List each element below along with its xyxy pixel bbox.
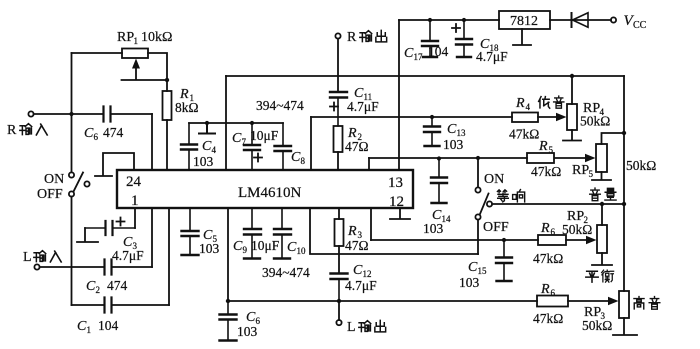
svg-text:47kΩ: 47kΩ — [533, 311, 563, 326]
label L output — [347, 320, 386, 335]
resistor R6 balance — [538, 235, 566, 245]
svg-text:C: C — [202, 139, 212, 154]
label RP1 10kOhm — [117, 30, 172, 46]
label R3 47ohm — [345, 224, 369, 253]
label RP3 50k — [582, 305, 612, 333]
svg-text:47Ω: 47Ω — [345, 238, 369, 253]
label C6 103 bottom — [237, 310, 261, 339]
svg-text:7: 7 — [242, 137, 247, 147]
switch S1 pole — [84, 181, 89, 186]
potentiometer RP1 — [122, 49, 148, 59]
svg-text:R: R — [347, 30, 357, 45]
svg-text:C: C — [86, 279, 96, 294]
label R input — [7, 123, 47, 138]
resistor R3 — [335, 219, 344, 246]
switch S1 contact ON — [69, 172, 74, 177]
svg-text:L: L — [23, 250, 32, 265]
wire R3 top — [338, 208, 340, 219]
svg-text:10: 10 — [297, 246, 307, 256]
wire IC to bottom rail — [227, 208, 229, 301]
op-amp U1 LM4610N body — [117, 170, 413, 208]
potentiometer RP4 — [567, 104, 577, 130]
label R5 47k — [531, 139, 561, 179]
svg-text:LM4610N: LM4610N — [238, 185, 302, 201]
svg-text:10μF: 10μF — [251, 238, 280, 253]
terminal L output — [336, 320, 341, 325]
svg-text:L: L — [347, 320, 356, 335]
label 394-474 upper — [256, 98, 304, 113]
svg-text:2: 2 — [96, 285, 101, 295]
svg-text:47kΩ: 47kΩ — [533, 251, 563, 266]
label C3 4.7uF — [112, 235, 144, 263]
wire balance line — [371, 239, 591, 241]
label R6 balance — [533, 221, 563, 266]
svg-text:103: 103 — [199, 241, 220, 256]
svg-text:R: R — [540, 221, 550, 236]
wire node A horizontal — [189, 122, 283, 124]
svg-text:17: 17 — [414, 52, 424, 62]
switch S2 pole — [487, 201, 492, 206]
wire RP5 top link — [602, 133, 625, 144]
switch S2 contact OFF — [475, 214, 480, 219]
wire RP1 right lead — [148, 53, 167, 78]
svg-text:8kΩ: 8kΩ — [175, 100, 199, 115]
wiper RP1 wire — [122, 66, 168, 80]
wire OFF down to C1 — [71, 197, 73, 305]
wire balance pin riser — [370, 208, 372, 240]
wire loudness low rail — [310, 208, 478, 254]
svg-text:9: 9 — [243, 245, 248, 255]
label C9 — [233, 239, 248, 255]
capacitor C12 electrolytic — [331, 274, 348, 302]
ground RP4 — [563, 130, 581, 141]
svg-text:ON: ON — [44, 172, 64, 187]
wire L input to C2 — [40, 266, 104, 268]
arrow into RP4 — [556, 113, 567, 122]
svg-text:OFF: OFF — [483, 220, 509, 235]
wire bottom rail — [228, 300, 613, 302]
resistor R5 — [527, 153, 554, 163]
svg-text:103: 103 — [423, 221, 444, 236]
terminal R output — [335, 33, 340, 38]
svg-text:104: 104 — [98, 318, 119, 333]
wire C2 to IC pin — [151, 208, 153, 267]
svg-text:7812: 7812 — [510, 14, 538, 29]
node RP5 top rail — [622, 131, 626, 135]
arrow into RP3 — [608, 297, 619, 306]
switch S2 arm — [480, 194, 489, 215]
polarity C18 plus — [452, 24, 460, 32]
label C14 103 — [423, 208, 451, 236]
label C15 103 — [459, 260, 487, 290]
wire R1 bottom lead — [166, 120, 168, 170]
ground RP2 — [592, 253, 612, 265]
terminal L input — [34, 264, 39, 269]
label R output — [347, 30, 387, 45]
arrow into RP2 — [586, 236, 597, 245]
wire junction to switch — [71, 116, 73, 172]
label C8 — [291, 150, 306, 166]
node RP1/R-input junction — [69, 112, 73, 116]
svg-text:C: C — [291, 150, 301, 165]
node loudness switch top — [476, 156, 480, 160]
svg-text:4: 4 — [526, 102, 531, 112]
label C10 — [287, 240, 306, 256]
resistor R4 — [512, 113, 538, 123]
node C17 top — [428, 18, 432, 22]
capacitor C10 — [274, 208, 291, 259]
label LM4610N — [238, 185, 302, 201]
capacitor C9 — [244, 208, 261, 259]
svg-text:50kΩ: 50kΩ — [580, 114, 610, 129]
svg-text:394~474: 394~474 — [256, 98, 304, 113]
svg-text:R: R — [515, 96, 525, 111]
svg-text:10kΩ: 10kΩ — [141, 30, 172, 45]
wire riser to top rail — [225, 76, 227, 170]
capacitor C4 — [181, 123, 197, 170]
svg-text:C: C — [287, 240, 297, 255]
svg-text:12: 12 — [389, 194, 404, 210]
label ON — [44, 172, 64, 187]
label bass — [539, 96, 564, 108]
svg-text:C: C — [84, 126, 94, 141]
node RP2 top — [600, 202, 604, 206]
svg-text:8: 8 — [301, 156, 306, 166]
capacitor C15 — [496, 240, 512, 281]
ground RP5 — [592, 172, 611, 180]
capacitor C18 electrolytic — [456, 20, 472, 57]
label RP5 — [572, 163, 594, 179]
diode D1 — [572, 13, 589, 27]
svg-text:6: 6 — [551, 288, 556, 298]
label loudness — [497, 190, 524, 202]
label R6 treble — [533, 282, 563, 326]
svg-text:103: 103 — [459, 275, 480, 290]
label RP2 50k — [562, 209, 592, 237]
label RP4 50k — [580, 101, 610, 129]
node C15 top — [502, 238, 506, 242]
ground bracket near pin 24 — [95, 153, 134, 176]
resistor R6 treble — [537, 296, 568, 307]
wire switch ON riser — [477, 158, 479, 187]
node L output — [337, 299, 341, 303]
wire R input to C6 — [34, 113, 103, 115]
capacitor C6b — [220, 301, 237, 341]
svg-text:4.7μF: 4.7μF — [112, 248, 144, 263]
capacitor C2 — [105, 260, 112, 275]
pin 24 — [126, 174, 142, 190]
wire volume line — [369, 157, 590, 159]
label C13 103 — [443, 122, 466, 152]
svg-text:OFF: OFF — [37, 187, 63, 202]
wiper RP1 arrow — [132, 59, 140, 69]
resistor R2 — [334, 126, 343, 152]
capacitor C7 electrolytic — [244, 123, 260, 170]
ground 7812 — [513, 29, 531, 45]
node loudness-volume — [622, 202, 626, 206]
label L input — [23, 250, 61, 265]
label R4 — [515, 96, 531, 112]
ground pin 12 — [390, 208, 410, 219]
svg-text:50kΩ: 50kΩ — [562, 222, 592, 237]
svg-text:C: C — [77, 319, 87, 334]
potentiometer RP3 treble — [619, 291, 629, 318]
node C4 top — [205, 121, 209, 125]
label 47k bass — [509, 127, 539, 142]
label 50k volume — [626, 158, 656, 173]
switch S1 contact OFF — [69, 191, 74, 196]
ground RP3 — [613, 318, 637, 335]
svg-text:R: R — [7, 123, 17, 138]
wire R2 to IC — [337, 152, 339, 170]
svg-text:474: 474 — [107, 278, 128, 293]
polarity C3 plus — [117, 218, 125, 226]
node C7 top — [250, 121, 254, 125]
svg-text:1: 1 — [87, 325, 92, 335]
capacitor C14 — [431, 158, 447, 203]
svg-text:R: R — [347, 224, 357, 239]
label C2 474 — [86, 278, 128, 295]
svg-text:1: 1 — [131, 193, 139, 209]
label R2 47ohm — [345, 126, 369, 154]
capacitor C6 — [104, 107, 111, 122]
wire RP1 left vertical — [71, 53, 73, 112]
capacitor C8 — [275, 123, 292, 170]
wire RP1 left lead — [72, 52, 123, 54]
capacitor C3 electrolytic — [85, 221, 135, 235]
wire R3 to C12 — [338, 246, 340, 273]
svg-text:4.7μF: 4.7μF — [345, 278, 377, 293]
svg-text:R: R — [540, 282, 550, 297]
switch S2 contact ON — [475, 187, 480, 192]
label Vcc — [624, 13, 647, 31]
svg-text:6: 6 — [94, 132, 99, 142]
label C7 10uF — [232, 128, 279, 147]
svg-text:474: 474 — [103, 125, 124, 140]
svg-text:C: C — [233, 239, 243, 254]
wire bass pin riser — [310, 117, 312, 170]
wire loudness to volume pot — [492, 203, 624, 205]
wire R1 top lead — [166, 82, 168, 91]
capacitor C11 electrolytic — [330, 92, 347, 126]
potentiometer RP5 volume — [596, 144, 607, 172]
wire top rail — [226, 75, 624, 77]
label treble — [634, 297, 660, 310]
svg-text:103: 103 — [193, 154, 214, 169]
label R1 8kOhm — [175, 87, 199, 115]
svg-text:4.7μF: 4.7μF — [476, 49, 508, 64]
node R1 top — [165, 78, 169, 82]
switch S1 arm — [74, 173, 84, 192]
label C18 4.7uF — [476, 37, 508, 64]
svg-text:C: C — [353, 263, 363, 278]
svg-text:1: 1 — [134, 36, 139, 46]
svg-text:CC: CC — [633, 20, 647, 31]
svg-text:RP: RP — [572, 163, 589, 178]
svg-text:104: 104 — [428, 44, 449, 59]
label OFF loudness — [483, 220, 509, 235]
label balance — [586, 270, 614, 282]
wire bass line — [311, 116, 560, 118]
wire C6 right — [111, 113, 153, 115]
svg-text:C: C — [232, 131, 242, 146]
label C11 4.7uF — [347, 86, 379, 114]
svg-text:47kΩ: 47kΩ — [509, 127, 539, 142]
label volume — [590, 188, 616, 201]
node C13 top — [430, 115, 434, 119]
polarity C7 plus — [254, 154, 262, 162]
svg-text:10μF: 10μF — [250, 128, 279, 143]
svg-text:4.7μF: 4.7μF — [347, 99, 379, 114]
svg-text:R: R — [538, 139, 548, 154]
svg-text:C: C — [404, 46, 414, 61]
node RP4 top — [570, 74, 574, 78]
wire C6 to IC top pin — [151, 114, 153, 170]
svg-text:24: 24 — [126, 174, 142, 190]
potentiometer RP2 balance — [597, 225, 607, 253]
label C4 103 — [193, 139, 217, 169]
ground C3 — [77, 228, 98, 242]
capacitor C13 — [424, 117, 440, 146]
wire C3 to IC pin 1 — [134, 208, 136, 228]
svg-text:103: 103 — [443, 137, 464, 152]
label C5 103 — [199, 228, 220, 256]
arrow into RP5 — [585, 154, 596, 163]
polarity C11 plus — [330, 103, 338, 111]
wire top supply — [399, 19, 611, 21]
label 10uF mid — [251, 238, 280, 253]
label C17 104 — [404, 44, 449, 62]
svg-text:C: C — [447, 122, 457, 137]
svg-text:50kΩ: 50kΩ — [582, 318, 612, 333]
wire C2 right — [112, 266, 153, 268]
svg-text:50kΩ: 50kΩ — [626, 158, 656, 173]
wire main right vertical — [623, 76, 625, 291]
svg-text:C: C — [468, 260, 478, 275]
svg-text:C: C — [246, 310, 256, 325]
svg-text:394~474: 394~474 — [262, 265, 310, 280]
wire RP2 top — [601, 204, 603, 225]
terminal Vcc — [611, 17, 616, 22]
wire C1 to IC pin — [168, 208, 170, 305]
svg-text:13: 13 — [388, 175, 403, 191]
label C6 474 — [84, 125, 124, 142]
label C1 104 — [77, 318, 119, 335]
label OFF — [37, 187, 63, 202]
svg-text:47Ω: 47Ω — [345, 139, 369, 154]
svg-text:ON: ON — [484, 172, 504, 187]
wire RP4 top — [571, 76, 573, 104]
capacitor C1 — [72, 298, 170, 313]
pin 1 — [131, 193, 139, 209]
resistor R1 — [163, 91, 172, 120]
pin 12 — [389, 194, 404, 210]
capacitor C17 — [422, 20, 438, 57]
svg-text:5: 5 — [549, 145, 554, 155]
svg-text:47kΩ: 47kΩ — [531, 164, 561, 179]
node bottom rail left — [226, 299, 230, 303]
terminal R input — [28, 111, 33, 116]
label 7812 — [510, 14, 538, 29]
regulator 7812 — [499, 11, 550, 29]
svg-text:RP: RP — [117, 30, 134, 45]
node C18 top — [462, 18, 466, 22]
wire OFF riser — [477, 220, 479, 254]
pin 13 — [388, 175, 403, 191]
svg-text:6: 6 — [551, 227, 556, 237]
wire pin13 riser — [398, 20, 400, 170]
node C14 top — [437, 156, 441, 160]
label C12 4.7uF — [345, 263, 377, 293]
svg-text:103: 103 — [237, 324, 258, 339]
svg-text:5: 5 — [589, 169, 594, 179]
wire R output down — [337, 39, 339, 92]
wire L output riser — [338, 301, 340, 320]
capacitor C5 — [182, 208, 199, 255]
label 394-474 lower — [262, 265, 310, 280]
stub plate at C4 node — [199, 123, 215, 134]
label ON loudness — [484, 172, 504, 187]
